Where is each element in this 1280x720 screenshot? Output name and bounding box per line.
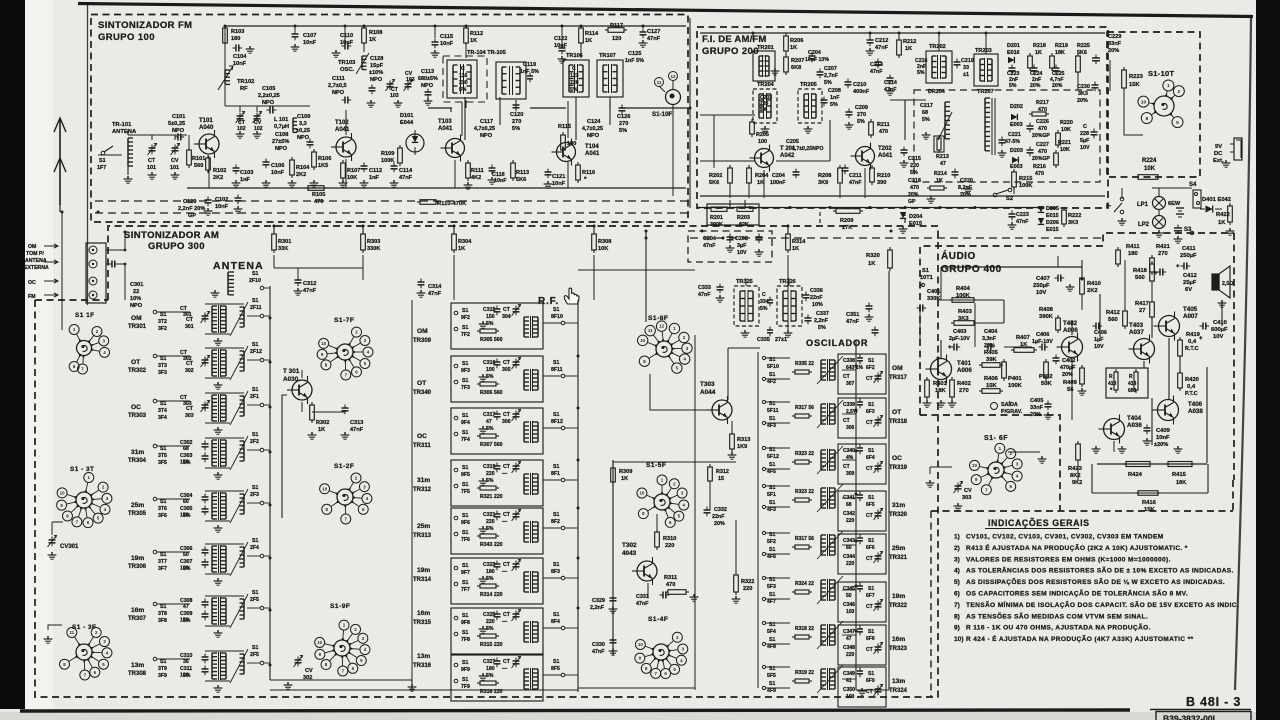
svg-text:L 101: L 101 — [274, 117, 288, 123]
svg-text:5F11: 5F11 — [767, 408, 779, 414]
svg-text:220: 220 — [846, 652, 855, 658]
resistor R212 — [898, 37, 900, 40]
svg-text:R314: R314 — [792, 239, 806, 245]
svg-text:R211: R211 — [877, 122, 890, 128]
svg-text:13m: 13m — [131, 662, 144, 669]
resistor R109 — [399, 145, 401, 148]
svg-text:230: 230 — [459, 80, 468, 86]
svg-text:OM: OM — [892, 365, 903, 372]
svg-text:CT: CT — [866, 556, 873, 562]
svg-text:GRUPO 300: GRUPO 300 — [148, 241, 205, 252]
svg-text:10K: 10K — [347, 175, 357, 181]
svg-text:10nF: 10nF — [1156, 435, 1170, 441]
svg-text:3T6: 3T6 — [158, 506, 167, 512]
svg-text:68: 68 — [183, 446, 189, 452]
svg-text:R418: R418 — [1133, 268, 1148, 274]
svg-text:TR205: TR205 — [800, 82, 817, 88]
svg-text:NPO: NPO — [480, 133, 493, 139]
svg-text:11: 11 — [648, 328, 653, 333]
svg-text:7F7: 7F7 — [461, 587, 470, 593]
resistor R108 — [363, 25, 365, 28]
wire FM bottom rail — [187, 187, 686, 189]
grounds audio — [940, 400, 942, 403]
svg-text:T202: T202 — [878, 146, 892, 152]
wire antenna feed — [59, 205, 61, 212]
svg-text:S1: S1 — [462, 513, 468, 519]
svg-text:LP2: LP2 — [1138, 222, 1150, 228]
svg-text:18K: 18K — [935, 388, 946, 394]
svg-text:41: 41 — [846, 678, 852, 684]
svg-text:180: 180 — [486, 569, 495, 575]
hand cursor — [564, 288, 579, 304]
svg-text:A037: A037 — [1129, 329, 1144, 336]
wire TR102 — [224, 44, 226, 70]
svg-text:10K: 10K — [1061, 127, 1071, 133]
svg-text:TR319: TR319 — [889, 465, 908, 471]
svg-text:5%: 5% — [1009, 83, 1017, 89]
svg-text:60: 60 — [183, 499, 189, 505]
svg-text:R322: R322 — [741, 579, 754, 585]
svg-text:47: 47 — [183, 604, 189, 610]
svg-text:10: 10 — [60, 490, 65, 495]
svg-text:116: 116 — [459, 73, 467, 79]
svg-text:C207: C207 — [824, 66, 837, 72]
svg-text:50: 50 — [183, 552, 189, 558]
svg-text:9F4: 9F4 — [461, 420, 470, 426]
svg-text:2,7nF: 2,7nF — [824, 73, 839, 79]
svg-text:T402: T402 — [1063, 320, 1078, 327]
resistors R201 R203 boxed — [707, 204, 759, 225]
svg-text:15pF: 15pF — [370, 63, 384, 69]
svg-text:6K8: 6K8 — [791, 65, 801, 71]
svg-text:R303: R303 — [367, 239, 380, 245]
svg-text:C104: C104 — [233, 54, 247, 60]
svg-text:T104: T104 — [585, 144, 599, 150]
svg-text:R301: R301 — [278, 239, 291, 245]
svg-text:TR304: TR304 — [128, 458, 147, 464]
svg-text:302: 302 — [185, 368, 194, 374]
svg-text:47nF: 47nF — [350, 427, 364, 433]
svg-text:2,2nF 20%: 2,2nF 20% — [178, 206, 205, 212]
svg-text:—: — — [502, 666, 508, 672]
svg-text:T 301: T 301 — [283, 368, 300, 375]
capacitor C329 — [612, 595, 614, 599]
svg-text:S1: S1 — [553, 659, 559, 665]
svg-text:S1: S1 — [462, 660, 468, 666]
svg-text:OM: OM — [28, 244, 36, 250]
svg-text:CT: CT — [866, 513, 873, 519]
svg-text:C128: C128 — [370, 56, 383, 62]
svg-text:+: + — [1176, 264, 1180, 270]
svg-text:R112: R112 — [470, 31, 483, 37]
svg-text:R205: R205 — [756, 132, 769, 138]
svg-text:414: 414 — [1128, 381, 1137, 387]
svg-text:R415: R415 — [1172, 472, 1187, 478]
svg-text:OSCILADOR: OSCILADOR — [806, 338, 868, 348]
svg-text:25m: 25m — [417, 523, 430, 530]
svg-text:100nF: 100nF — [770, 180, 786, 186]
capacitor C126 — [621, 105, 623, 109]
svg-text:39K: 39K — [986, 357, 997, 363]
svg-text:R222: R222 — [1068, 213, 1081, 219]
svg-text:C226: C226 — [1036, 119, 1049, 125]
svg-text:⊢: ⊢ — [1106, 202, 1111, 210]
svg-text:390K: 390K — [1039, 314, 1054, 320]
svg-text:S1: S1 — [868, 671, 874, 677]
resistor R106 — [313, 149, 315, 152]
svg-text:GRUPO 200: GRUPO 200 — [702, 46, 759, 57]
wire FM can drops — [464, 97, 466, 140]
svg-text:R305 560: R305 560 — [480, 337, 503, 343]
svg-text:31m: 31m — [131, 449, 144, 456]
wire FI bottom rail — [700, 195, 1105, 197]
svg-text:E016: E016 — [1007, 50, 1020, 56]
svg-text:47nF: 47nF — [698, 292, 711, 298]
capacitor C101 — [175, 136, 179, 138]
svg-text:220: 220 — [743, 586, 752, 592]
svg-text:3,3: 3,3 — [299, 121, 307, 127]
RF filter row 8F1 — [451, 460, 543, 506]
svg-text:9F5: 9F5 — [461, 472, 470, 478]
svg-text:9F8: 9F8 — [461, 620, 470, 626]
wire osc to right rows — [906, 371, 910, 373]
svg-text:R220: R220 — [1060, 120, 1073, 126]
svg-text:TR308: TR308 — [128, 671, 147, 677]
svg-text:1nF 5%: 1nF 5% — [625, 58, 644, 64]
svg-text:1K: 1K — [936, 178, 943, 184]
capacitor C108 — [309, 139, 311, 143]
svg-text:TR317: TR317 — [889, 375, 908, 381]
AM right filter row TR319 — [838, 444, 886, 484]
capacitor C301 — [109, 263, 113, 265]
svg-text:R319 22: R319 22 — [795, 670, 814, 676]
svg-text:S1: S1 — [769, 372, 775, 378]
svg-text:560: 560 — [194, 163, 203, 169]
svg-text:R405: R405 — [984, 350, 999, 356]
svg-text:270: 270 — [619, 121, 628, 127]
svg-text:25m: 25m — [892, 545, 905, 552]
svg-text:7F9: 7F9 — [461, 684, 470, 690]
svg-text:8F3: 8F3 — [551, 569, 560, 575]
svg-text:E003: E003 — [1010, 164, 1023, 170]
svg-text:10K: 10K — [1060, 147, 1070, 153]
svg-text:3): 3) — [954, 556, 960, 563]
svg-text:D201: D201 — [1007, 43, 1020, 49]
svg-text:31m: 31m — [892, 502, 905, 509]
svg-text:OT: OT — [417, 380, 426, 387]
svg-text:8F11: 8F11 — [551, 367, 563, 373]
svg-text:S1: S1 — [553, 464, 559, 470]
svg-text:R216: R216 — [1033, 164, 1046, 170]
svg-text:56: 56 — [1067, 387, 1074, 393]
svg-text:NPO: NPO — [332, 90, 345, 96]
capacitor C107 — [294, 31, 296, 35]
svg-text:470: 470 — [1038, 126, 1047, 132]
svg-text:C202: C202 — [735, 236, 748, 242]
left margin shading — [25, 0, 53, 709]
svg-text:R313: R313 — [737, 437, 750, 443]
svg-text:T406: T406 — [1188, 401, 1203, 408]
capacitor C127 — [642, 29, 644, 33]
wires AM mid — [311, 402, 313, 405]
svg-text:20%: 20% — [1030, 412, 1041, 418]
capacitor C214 — [889, 75, 891, 79]
svg-text:C338: C338 — [843, 358, 855, 364]
svg-text:S1: S1 — [252, 271, 258, 277]
svg-text:R101: R101 — [192, 156, 205, 162]
svg-text:5%: 5% — [830, 102, 838, 108]
capacitor C336 — [805, 292, 807, 296]
svg-text:10nF: 10nF — [233, 61, 247, 67]
svg-text:47: 47 — [846, 636, 852, 642]
svg-text:R403: R403 — [958, 309, 973, 315]
svg-text:S1: S1 — [462, 413, 468, 419]
svg-text:C217: C217 — [920, 103, 933, 109]
svg-text:19m: 19m — [417, 567, 430, 574]
svg-text:S1: S1 — [160, 552, 166, 558]
svg-text:7F5: 7F5 — [461, 489, 470, 495]
svg-text:D101: D101 — [400, 113, 413, 119]
AM right filter row TR320 — [838, 491, 886, 531]
svg-text:S1: S1 — [769, 681, 775, 687]
svg-text:6V: 6V — [1185, 287, 1192, 293]
svg-text:5±0,25: 5±0,25 — [168, 121, 185, 127]
svg-text:CT: CT — [843, 374, 850, 380]
svg-text:R115: R115 — [558, 124, 571, 130]
svg-text:2K2: 2K2 — [213, 175, 223, 181]
svg-text:C336: C336 — [810, 288, 823, 294]
svg-text:12: 12 — [659, 324, 664, 329]
svg-text:C309: C309 — [180, 611, 193, 617]
svg-text:680: 680 — [1128, 388, 1137, 394]
ground jack — [1225, 160, 1227, 163]
svg-text:C301: C301 — [130, 282, 143, 288]
svg-text:5%: 5% — [459, 87, 467, 93]
AM right filter row TR318 — [838, 398, 886, 438]
svg-text:5%: 5% — [818, 325, 826, 331]
svg-text:2K2: 2K2 — [296, 172, 306, 178]
svg-text:R417: R417 — [1135, 301, 1149, 307]
resistor R116 — [577, 162, 579, 165]
resistor R107 — [342, 160, 344, 163]
svg-text:6F8: 6F8 — [866, 636, 875, 642]
svg-text:2F1: 2F1 — [250, 394, 259, 400]
svg-text:10: 10 — [638, 642, 643, 647]
RF filter row 8F3 — [451, 558, 543, 604]
svg-text:T302: T302 — [622, 542, 637, 549]
svg-text:33nF: 33nF — [1108, 41, 1122, 47]
svg-text:100K: 100K — [381, 158, 394, 164]
svg-text:123: 123 — [570, 73, 579, 79]
svg-text:R215: R215 — [1019, 176, 1032, 182]
svg-text:EXTERNA: EXTERNA — [24, 265, 49, 271]
svg-text:R: R — [1129, 374, 1133, 380]
svg-text:R208: R208 — [818, 173, 831, 179]
svg-text:4,7±0,25: 4,7±0,25 — [582, 126, 603, 132]
svg-text:E015: E015 — [909, 221, 922, 227]
svg-text:R307 560: R307 560 — [480, 442, 503, 448]
svg-text:6F3: 6F3 — [866, 409, 875, 415]
svg-text:S1: S1 — [553, 512, 559, 518]
svg-text:OC: OC — [28, 280, 36, 286]
svg-text:CV: CV — [171, 158, 179, 164]
svg-text:R312: R312 — [716, 469, 729, 475]
svg-text:OT: OT — [131, 359, 140, 366]
svg-text:3T4: 3T4 — [158, 408, 167, 414]
svg-text:3K3: 3K3 — [1078, 91, 1088, 97]
svg-text:1F7: 1F7 — [97, 165, 106, 171]
svg-text:3T8: 3T8 — [158, 611, 167, 617]
svg-text:OS CAPACITORES SEM INDICAÇÃO D: OS CAPACITORES SEM INDICAÇÃO DE TOLERÂNC… — [966, 589, 1188, 598]
svg-text:18K: 18K — [1176, 480, 1186, 486]
svg-text:S1: S1 — [462, 430, 468, 436]
svg-text:220: 220 — [486, 471, 495, 477]
svg-text:C303: C303 — [180, 453, 193, 459]
svg-text:S1-7F: S1-7F — [334, 317, 354, 324]
svg-text:5%: 5% — [183, 673, 191, 679]
capacitor C118 — [491, 165, 493, 169]
svg-text:ANTENA: ANTENA — [25, 258, 47, 264]
svg-text:3F9: 3F9 — [158, 673, 167, 679]
antenna mast symbol — [59, 118, 61, 205]
svg-text:5F1: 5F1 — [767, 492, 776, 498]
svg-text:5F4: 5F4 — [767, 629, 776, 635]
title block box B39-3832-00 — [1156, 712, 1251, 720]
svg-text:7F3: 7F3 — [461, 385, 470, 391]
speaker — [1212, 274, 1219, 290]
svg-text:R102: R102 — [213, 168, 226, 174]
svg-text:47-5%: 47-5% — [1005, 139, 1020, 145]
RF filter row 8F10 — [451, 303, 543, 349]
svg-text:C219: C219 — [961, 58, 974, 64]
svg-text:LP1: LP1 — [1137, 202, 1149, 208]
svg-text:R317 56: R317 56 — [795, 536, 814, 542]
svg-text:NPO: NPO — [421, 83, 434, 89]
svg-text:C124: C124 — [587, 119, 601, 125]
svg-text:CT: CT — [866, 466, 873, 472]
svg-text:330K: 330K — [367, 246, 380, 252]
svg-text:A036: A036 — [1127, 422, 1142, 429]
svg-text:12: 12 — [670, 74, 676, 79]
svg-text:TR316: TR316 — [413, 663, 432, 669]
svg-text:1K5: 1K5 — [318, 163, 328, 169]
svg-text:C312: C312 — [303, 281, 316, 287]
svg-text:120: 120 — [612, 36, 621, 42]
junction dots FI-AM link — [749, 206, 752, 209]
svg-text:0,7µH: 0,7µH — [274, 124, 289, 130]
svg-text:C333: C333 — [698, 285, 711, 291]
svg-text:S1: S1 — [553, 612, 559, 618]
svg-text:C351: C351 — [846, 312, 859, 318]
svg-text:309: 309 — [846, 471, 855, 477]
svg-text:S1-2F: S1-2F — [334, 463, 354, 470]
svg-text:10: 10 — [972, 463, 977, 468]
svg-text:TR207: TR207 — [977, 89, 994, 95]
svg-text:11: 11 — [69, 630, 74, 635]
wire AM internal verticals — [411, 300, 413, 690]
svg-text:C204: C204 — [703, 236, 716, 242]
svg-text:1K: 1K — [621, 476, 628, 482]
svg-text:S1: S1 — [462, 563, 468, 569]
svg-text:10nF: 10nF — [215, 204, 229, 210]
switch S4 detail — [1193, 190, 1201, 208]
resistor R416 — [1135, 492, 1138, 494]
svg-text:R.T.C: R.T.C — [1185, 346, 1199, 352]
resistor R207 — [785, 54, 787, 57]
svg-text:C412: C412 — [1183, 273, 1197, 279]
grounds C129 C102 — [207, 208, 209, 211]
svg-text:OC: OC — [131, 404, 141, 411]
capacitor C312 — [297, 277, 299, 281]
svg-text:S1 1F: S1 1F — [75, 312, 95, 319]
svg-text:220: 220 — [486, 519, 495, 525]
svg-text:1nF: 1nF — [830, 95, 840, 101]
svg-text:6F6: 6F6 — [866, 545, 875, 551]
capacitor C333 — [719, 284, 721, 288]
svg-text:C331: C331 — [636, 594, 649, 600]
ground am bottom — [861, 688, 863, 691]
svg-text:10%: 10% — [130, 296, 141, 302]
svg-text:20%: 20% — [1062, 372, 1073, 378]
svg-text:100: 100 — [846, 609, 855, 615]
svg-text:T101: T101 — [199, 118, 213, 124]
svg-text:B 48I - 3: B 48I - 3 — [1186, 695, 1241, 709]
svg-text:R309: R309 — [619, 469, 632, 475]
svg-text:50K: 50K — [1041, 381, 1052, 387]
svg-text:C208: C208 — [828, 88, 841, 94]
svg-text:47nF: 47nF — [1016, 219, 1029, 225]
svg-text:C218: C218 — [908, 178, 921, 184]
svg-text:C120: C120 — [510, 112, 523, 118]
svg-text:4F6: 4F6 — [767, 554, 776, 560]
svg-text:R308: R308 — [598, 239, 611, 245]
svg-text:S1: S1 — [769, 416, 775, 422]
svg-text:0,4: 0,4 — [1187, 384, 1196, 390]
capacitor CV102 — [256, 113, 258, 117]
bottom margin strip — [0, 712, 1280, 720]
rotary switch S1-10T — [1154, 96, 1174, 116]
svg-text:R315 220: R315 220 — [480, 642, 503, 648]
svg-text:TR302: TR302 — [128, 368, 147, 374]
rotary switch S1-5F — [654, 494, 670, 510]
svg-text:A007: A007 — [1183, 313, 1198, 320]
svg-text:TR315: TR315 — [413, 620, 432, 626]
svg-text:S1: S1 — [252, 645, 258, 651]
svg-text:5%: 5% — [183, 566, 191, 572]
svg-text:1K: 1K — [905, 46, 912, 52]
svg-text:C305: C305 — [180, 506, 193, 512]
svg-text:S1: S1 — [462, 530, 468, 536]
svg-text:10: 10 — [1141, 99, 1147, 105]
svg-text:R108: R108 — [369, 30, 382, 36]
capacitor C111 — [342, 99, 346, 101]
svg-text:C209: C209 — [855, 105, 868, 111]
capacitor C212 — [869, 37, 871, 41]
svg-text:R221: R221 — [1058, 140, 1071, 146]
svg-text:R 116 - 1K OU 470 OHMS, AJUSTA: R 116 - 1K OU 470 OHMS, AJUSTADA NA PROD… — [966, 623, 1151, 632]
svg-text:2,7±0,5: 2,7±0,5 — [328, 83, 347, 89]
svg-text:TR322: TR322 — [889, 603, 908, 609]
svg-text:5F5: 5F5 — [767, 673, 776, 679]
svg-text:7F8: 7F8 — [461, 637, 470, 643]
svg-text:20%GP: 20%GP — [1032, 156, 1050, 162]
svg-text:TR313: TR313 — [413, 533, 432, 539]
svg-text:NPO: NPO — [587, 133, 600, 139]
svg-text:P/GRAV.: P/GRAV. — [1001, 409, 1023, 415]
svg-text:306: 306 — [846, 425, 855, 431]
svg-text:A041: A041 — [585, 151, 600, 157]
svg-text:8F5: 8F5 — [551, 666, 560, 672]
